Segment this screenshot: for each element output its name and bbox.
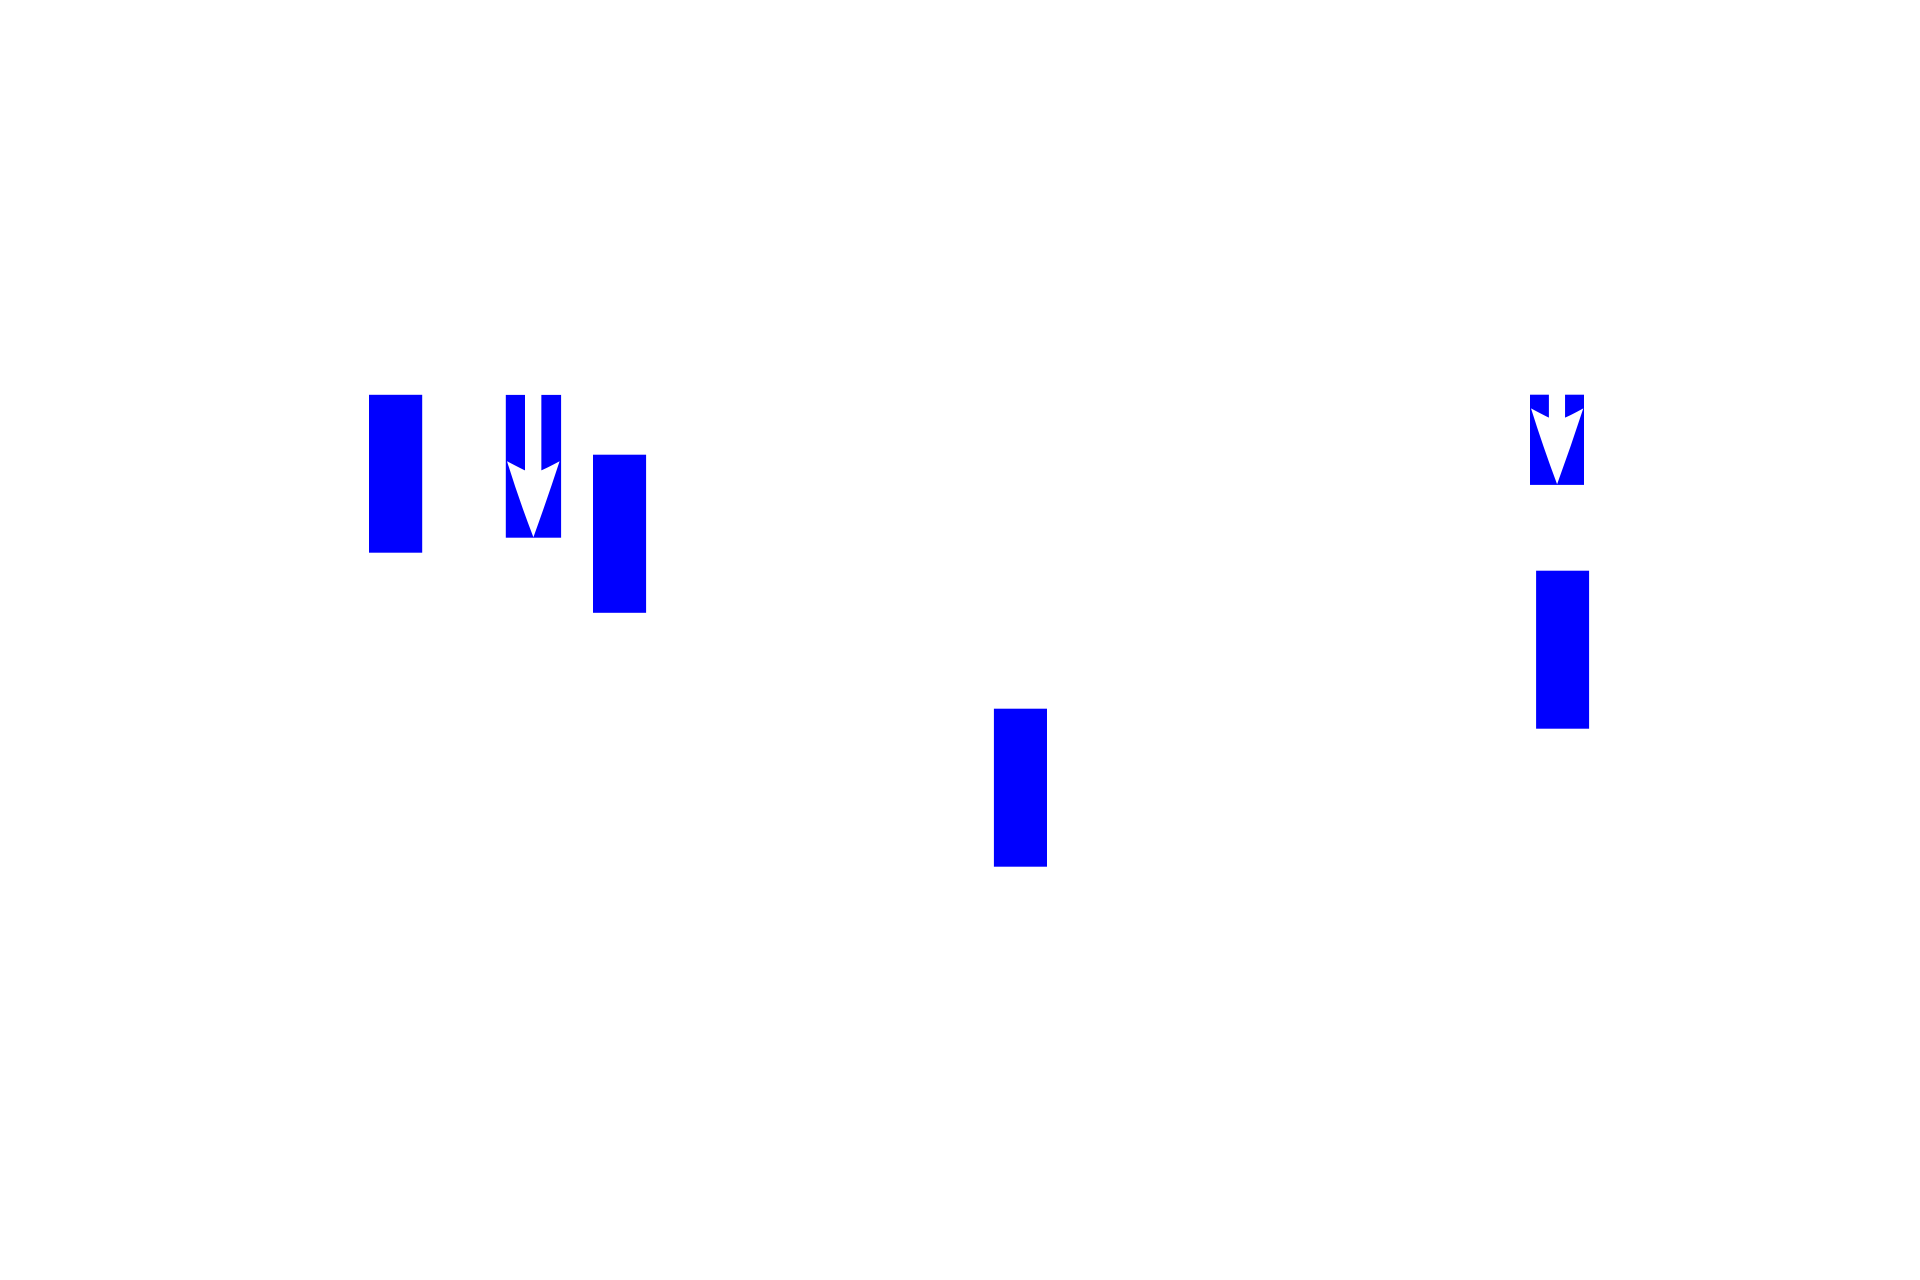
block 2 (blue bar with white down arrow) <box>506 394 561 538</box>
block 1 (plain blue bar, upper-left) <box>369 395 422 553</box>
block 5 (short blue bar with white down arrow, upper-right) <box>1530 394 1584 485</box>
block 3 (plain blue bar, below-right of block 2) <box>593 455 646 613</box>
block 4 (plain blue bar, centre-bottom) <box>994 709 1047 867</box>
down arrow in block 5 <box>1531 394 1583 485</box>
down arrow in block 2 <box>507 394 560 537</box>
block 6 (plain blue bar, right column) <box>1536 571 1589 729</box>
